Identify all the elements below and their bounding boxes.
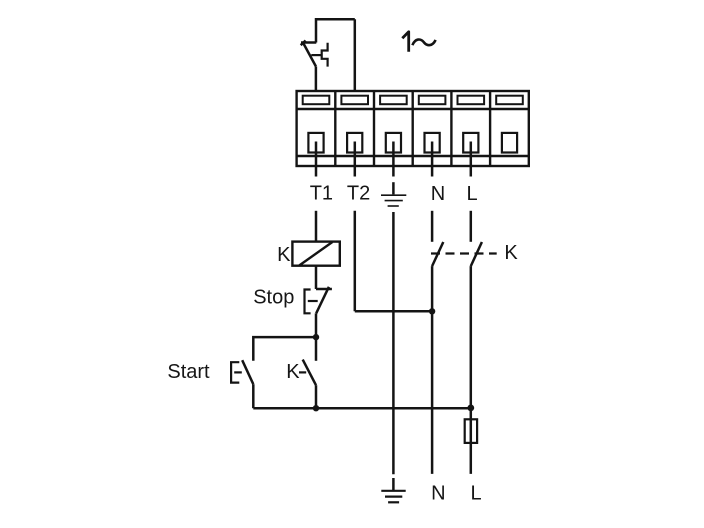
svg-text:Start: Start — [167, 361, 210, 383]
wire stub below terminal N — [431, 142, 434, 177]
stop button actuator bracket — [305, 290, 311, 314]
contact K auxiliary blade — [303, 360, 316, 386]
wire T2 to N link — [355, 310, 432, 313]
junction dot C — [429, 308, 435, 314]
terminal block housing — [297, 91, 529, 166]
wire stub below terminal PE — [392, 142, 395, 177]
terminal 5 (L) — [458, 96, 485, 153]
terminal 4 (N) — [419, 96, 446, 153]
start button actuator bracket — [231, 362, 239, 382]
wire coil to stop button — [315, 266, 318, 289]
label 1~ single phase — [412, 40, 435, 46]
thermal contact tick — [301, 41, 306, 46]
stop button contact fixed tick — [316, 288, 332, 291]
thermal release element — [322, 43, 328, 67]
wire N column lower — [431, 266, 434, 474]
wire stub below terminal T1 — [315, 142, 318, 177]
junction dot D — [467, 405, 474, 412]
bottom rail wire — [253, 407, 470, 410]
fuse F1 — [465, 419, 477, 443]
svg-text:N: N — [431, 183, 445, 205]
wire start branch top — [253, 337, 316, 361]
wire stop to start junction — [315, 313, 318, 361]
thermal release link — [311, 54, 321, 56]
wire K aux to bottom junction — [315, 385, 318, 408]
wire ground column — [392, 212, 395, 474]
terminal 3 (PE) — [380, 96, 407, 153]
thermal contact blade — [303, 43, 316, 66]
wire L column upper — [470, 211, 473, 242]
start button contact blade — [242, 360, 253, 384]
wire T2 column — [354, 211, 357, 311]
wire T1 column to coil — [315, 211, 318, 242]
stop button actuator dash — [308, 300, 318, 302]
svg-text:K: K — [277, 244, 291, 266]
terminal 6 (spare) — [496, 96, 523, 153]
dashed actuator link K contacts — [431, 252, 497, 254]
wire start branch bottom — [252, 384, 255, 408]
wire stub below terminal L — [470, 142, 473, 177]
contact K auxiliary actuator dash — [299, 371, 306, 373]
svg-text:N: N — [431, 483, 445, 505]
stop button contact blade — [316, 287, 329, 314]
svg-text:T2: T2 — [347, 183, 370, 205]
wire N column upper — [431, 211, 434, 242]
junction dot B — [313, 405, 319, 411]
terminal 2 (T2) — [341, 96, 368, 153]
thermal contact fixed bar — [301, 41, 316, 44]
contact K main L blade — [471, 242, 482, 266]
terminal 1 (T1) — [303, 96, 330, 153]
svg-text:K: K — [286, 361, 300, 383]
relay coil K — [292, 242, 339, 266]
label 1 digit — [402, 32, 408, 52]
svg-text:K: K — [504, 242, 518, 264]
wire T1 loop to thermal switch — [316, 19, 355, 42]
svg-text:L: L — [470, 483, 481, 505]
contact K main N blade — [432, 242, 443, 266]
junction dot A — [313, 334, 319, 340]
svg-text:L: L — [466, 183, 477, 205]
start button actuator dash — [234, 371, 242, 373]
wire thermal blade to T1 terminal — [315, 66, 318, 91]
ground symbol upper — [381, 182, 406, 206]
wire thermal switch to T2 terminal — [354, 19, 357, 91]
svg-text:Stop: Stop — [253, 287, 294, 309]
ground symbol lower — [381, 478, 405, 502]
wire L column lower — [470, 266, 473, 474]
svg-text:T1: T1 — [310, 183, 333, 205]
wire stub below terminal T2 — [354, 142, 357, 177]
